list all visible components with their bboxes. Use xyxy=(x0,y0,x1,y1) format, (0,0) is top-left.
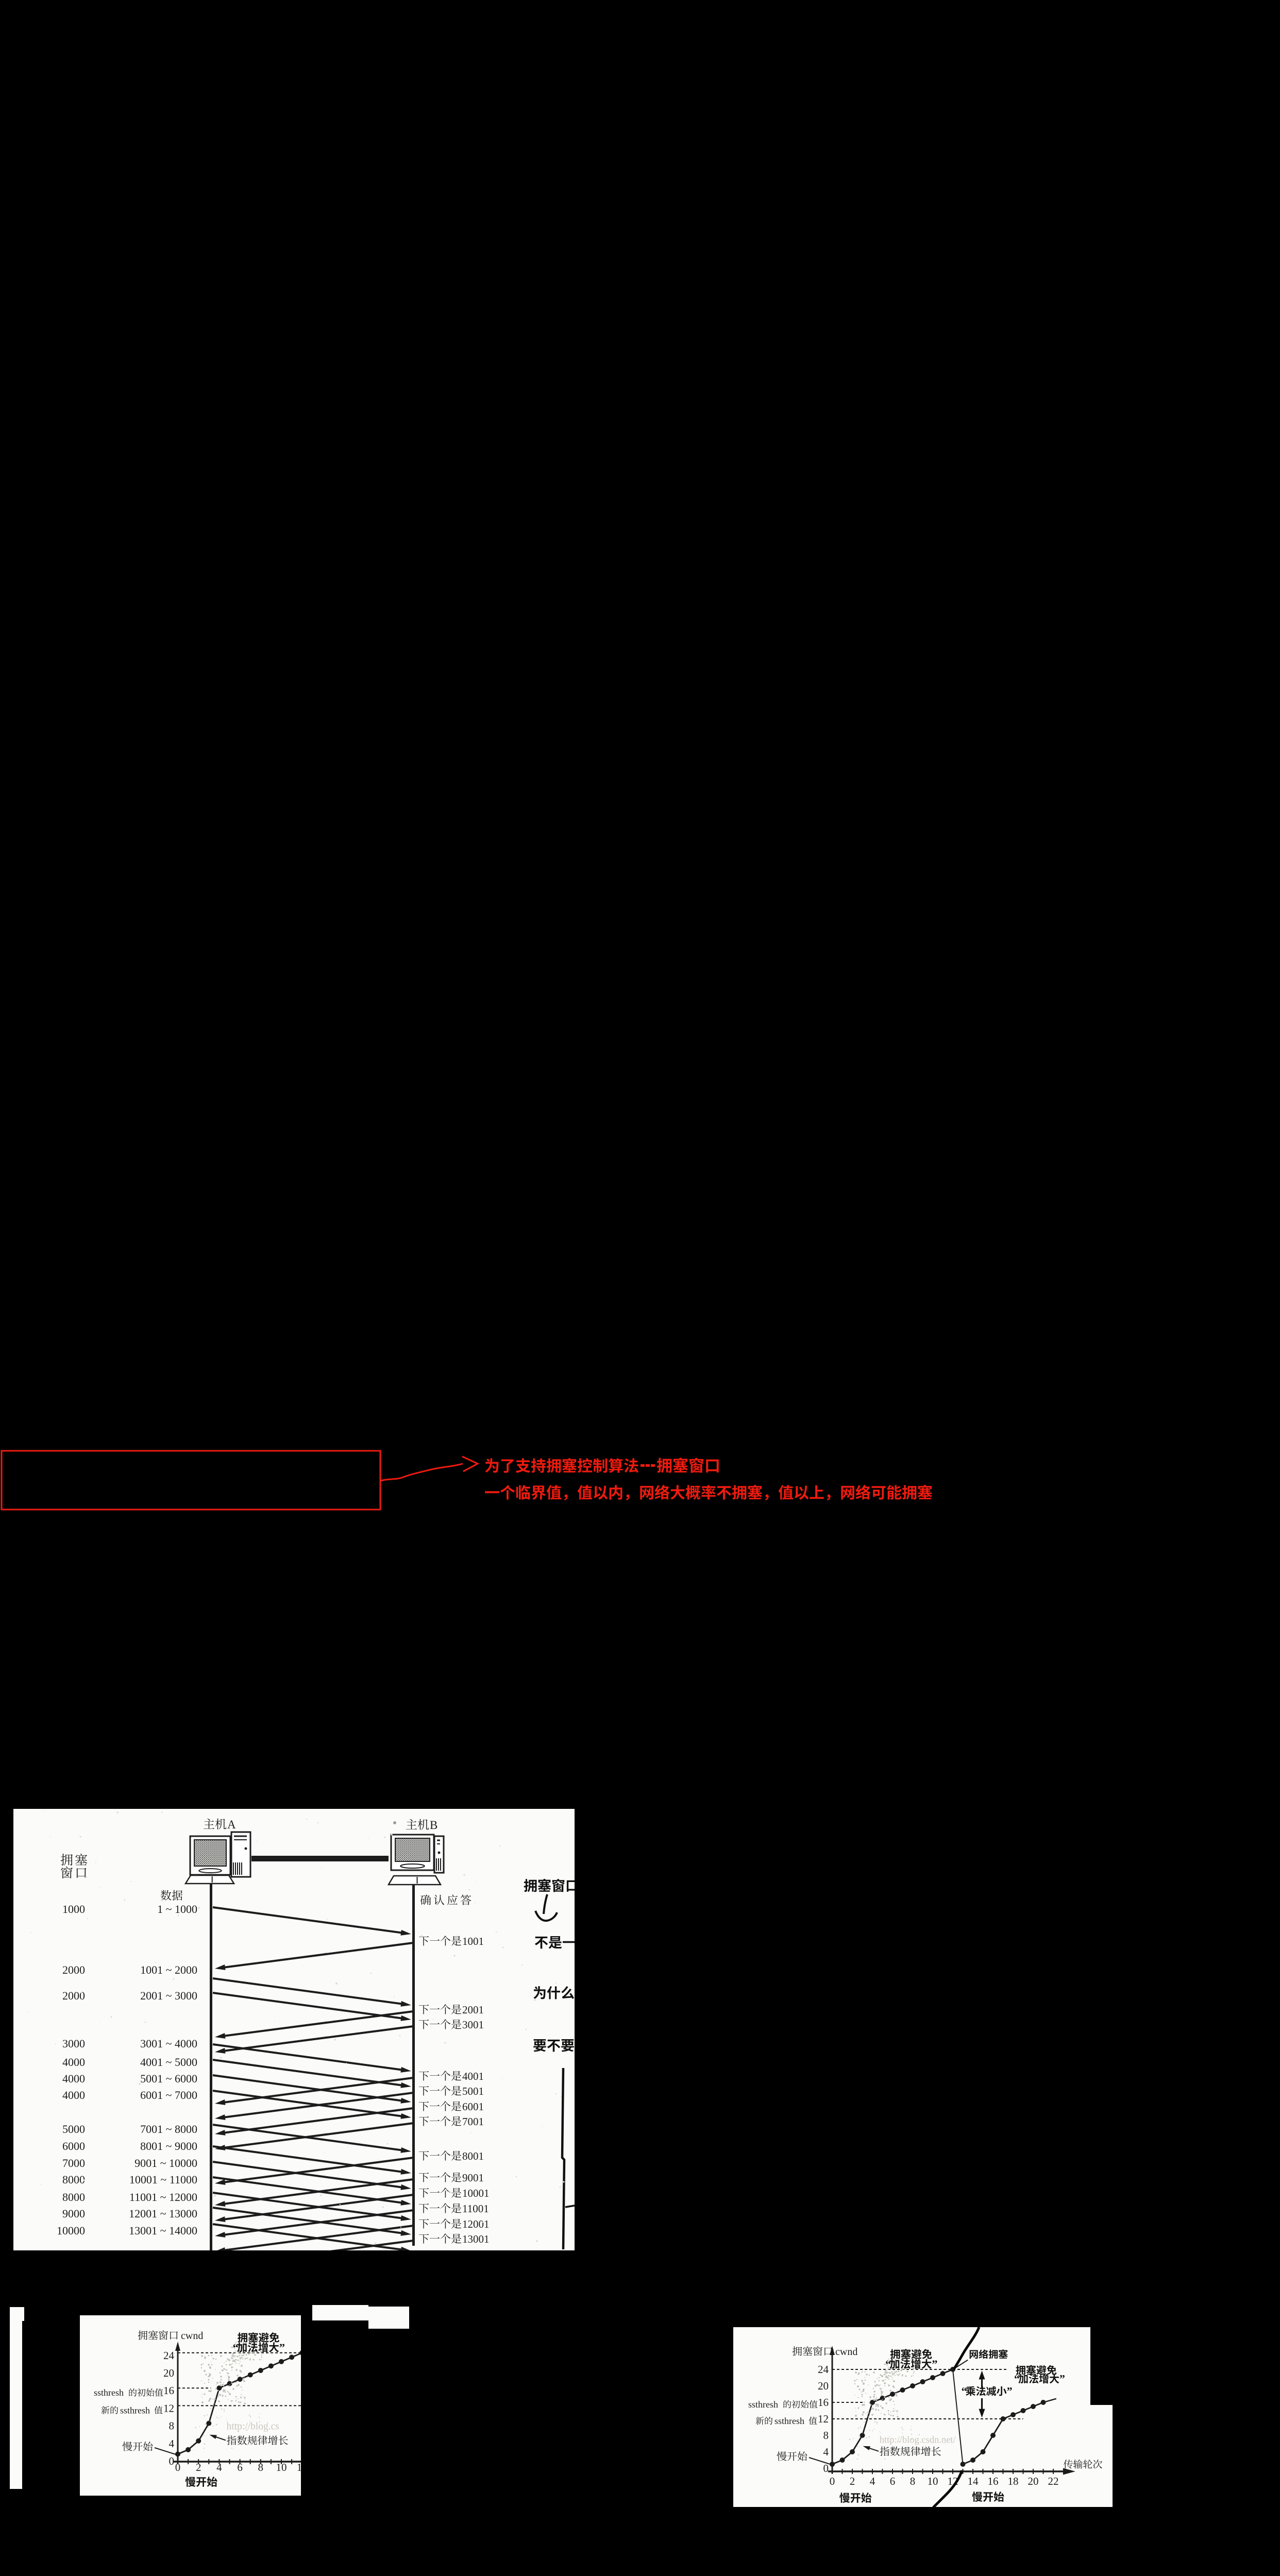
ack arrow xyxy=(221,2123,413,2148)
svg-text:7000: 7000 xyxy=(62,2157,85,2170)
slow start pointer xyxy=(777,2451,787,2461)
svg-text:4: 4 xyxy=(169,2437,175,2450)
svg-text:5001 ~ 6000: 5001 ~ 6000 xyxy=(140,2072,197,2085)
congestion avoidance 1 xyxy=(890,2349,900,2359)
data arrow xyxy=(213,2091,405,2116)
data arrow xyxy=(213,2044,405,2070)
label congestion window xyxy=(61,1854,73,1866)
svg-text:24: 24 xyxy=(818,2363,829,2376)
dash 24 xyxy=(832,2369,1008,2370)
svg-text:14: 14 xyxy=(968,2475,979,2487)
note vline xyxy=(562,2068,564,2249)
ack arrow xyxy=(221,2226,413,2251)
svg-text:2000: 2000 xyxy=(62,1963,85,1976)
svg-text:11001: 11001 xyxy=(462,2202,489,2215)
figure1 scan background xyxy=(13,1809,575,2250)
ack label 4001 xyxy=(419,2071,429,2081)
data arrow xyxy=(213,2125,405,2150)
host A xyxy=(204,1819,214,1829)
svg-text:8001: 8001 xyxy=(462,2150,484,2162)
svg-text:“: “ xyxy=(962,2385,967,2398)
curve1 xyxy=(178,2353,302,2454)
svg-text:3001 ~ 4000: 3001 ~ 4000 xyxy=(140,2037,197,2050)
ack label 12001 xyxy=(419,2219,429,2229)
svg-text:6001: 6001 xyxy=(462,2100,484,2113)
svg-text:8: 8 xyxy=(258,2461,264,2473)
svg-text:9001 ~ 10000: 9001 ~ 10000 xyxy=(134,2157,197,2170)
x axis xyxy=(828,2470,1068,2472)
svg-text:”: ” xyxy=(932,2358,937,2370)
data arrow xyxy=(213,2162,405,2188)
y axis xyxy=(177,2347,179,2464)
svg-text:4001: 4001 xyxy=(462,2070,484,2082)
svg-text:0: 0 xyxy=(175,2461,181,2473)
congestion avoidance 2 xyxy=(1016,2365,1025,2375)
dash 24 xyxy=(178,2352,302,2353)
ack arrow xyxy=(221,2011,413,2037)
data arrow xyxy=(213,2075,405,2101)
svg-text:3000: 3000 xyxy=(62,2037,85,2050)
svg-text:ssthresh: ssthresh xyxy=(748,2399,778,2410)
ack arrow xyxy=(221,2210,413,2235)
svg-text:10000: 10000 xyxy=(57,2224,85,2237)
svg-text:3001: 3001 xyxy=(462,2019,484,2031)
svg-text:20: 20 xyxy=(1028,2475,1039,2487)
scan blotch xyxy=(220,2381,222,2383)
note line3 xyxy=(533,1986,545,1999)
drop line xyxy=(953,2369,963,2464)
svg-text:11001 ~ 12000: 11001 ~ 12000 xyxy=(129,2191,197,2204)
red text line1 xyxy=(485,1459,498,1473)
svg-text:http://blog.csdn.net/: http://blog.csdn.net/ xyxy=(880,2435,956,2445)
data arrow xyxy=(213,2193,405,2218)
svg-text:B: B xyxy=(430,1819,437,1832)
label data xyxy=(161,1890,172,1901)
ack label 7001 xyxy=(419,2116,429,2126)
data arrow xyxy=(213,2208,405,2233)
svg-text:13001: 13001 xyxy=(462,2233,490,2245)
svg-text:7001 ~ 8000: 7001 ~ 8000 xyxy=(140,2123,197,2136)
svg-text:4: 4 xyxy=(823,2446,829,2458)
svg-text:ssthresh: ssthresh xyxy=(94,2387,124,2398)
svg-text:1 ~ 1000: 1 ~ 1000 xyxy=(157,1903,197,1916)
congestion avoidance 1 xyxy=(238,2332,247,2342)
chartL background xyxy=(80,2315,301,2496)
svg-text:“: “ xyxy=(885,2358,891,2370)
svg-text:4: 4 xyxy=(216,2461,222,2473)
ack label 10001 xyxy=(419,2188,429,2198)
ack label 9001 xyxy=(419,2173,429,2182)
chartR background xyxy=(733,2327,1113,2507)
svg-text:1000: 1000 xyxy=(62,1903,85,1916)
curve2 xyxy=(963,2402,1043,2464)
svg-text:8001 ~ 9000: 8001 ~ 9000 xyxy=(140,2140,197,2153)
dash 16 xyxy=(832,2402,864,2403)
y axis xyxy=(832,2351,833,2473)
svg-text:2001 ~ 3000: 2001 ~ 3000 xyxy=(140,1989,197,2002)
curve1 xyxy=(832,2369,953,2464)
data arrow xyxy=(213,2224,405,2250)
svg-text:18: 18 xyxy=(1008,2475,1019,2487)
svg-text:8000: 8000 xyxy=(62,2173,85,2186)
data arrow xyxy=(213,1993,405,2019)
svg-text:2: 2 xyxy=(196,2461,201,2473)
svg-text:”: ” xyxy=(279,2341,285,2354)
svg-text:10: 10 xyxy=(276,2461,287,2473)
svg-text:8: 8 xyxy=(823,2429,829,2442)
svg-text:12001: 12001 xyxy=(462,2218,490,2230)
ack label 8001 xyxy=(419,2151,429,2161)
svg-text:8000: 8000 xyxy=(62,2191,85,2204)
dash 16 xyxy=(178,2387,211,2388)
svg-text:12001 ~ 13000: 12001 ~ 13000 xyxy=(129,2207,197,2220)
svg-text:12: 12 xyxy=(163,2402,174,2414)
svg-text:”: ” xyxy=(1007,2385,1013,2398)
ack arrow xyxy=(221,2078,413,2103)
ack label 6001 xyxy=(419,2102,429,2111)
svg-text:16: 16 xyxy=(988,2475,999,2487)
svg-text:“: “ xyxy=(1014,2372,1020,2385)
slow start pointer xyxy=(123,2442,132,2451)
dash 12 xyxy=(178,2405,302,2406)
svg-text:10: 10 xyxy=(928,2475,938,2487)
red arrow xyxy=(381,1464,463,1481)
svg-text:9000: 9000 xyxy=(62,2207,85,2220)
bold slow start 1 xyxy=(185,2477,195,2487)
ack arrow xyxy=(221,2026,413,2052)
label ack xyxy=(420,1895,431,1905)
svg-text:2: 2 xyxy=(850,2475,855,2487)
svg-text:”: ” xyxy=(1059,2372,1065,2385)
ack arrow xyxy=(221,2093,413,2118)
svg-text:6: 6 xyxy=(237,2461,243,2473)
ack arrow xyxy=(221,1943,413,1968)
ack label 11001 xyxy=(419,2204,429,2213)
data arrow xyxy=(213,2177,405,2203)
bold slow start 2 xyxy=(972,2492,982,2502)
svg-text:4: 4 xyxy=(870,2475,875,2487)
svg-text:1001: 1001 xyxy=(462,1935,484,1947)
note line4 xyxy=(533,2039,546,2052)
network congestion xyxy=(970,2350,978,2359)
svg-text:22: 22 xyxy=(1048,2475,1059,2487)
svg-text:5001: 5001 xyxy=(462,2085,484,2097)
ack arrow xyxy=(221,2195,413,2220)
svg-text:1001 ~ 2000: 1001 ~ 2000 xyxy=(140,1963,197,1976)
ack label 2001 xyxy=(419,2005,429,2014)
host A computer xyxy=(190,1836,230,1875)
red box xyxy=(2,1451,380,1510)
scan noise xyxy=(195,1876,197,1877)
svg-text:10001: 10001 xyxy=(462,2187,490,2199)
data arrow xyxy=(213,2146,405,2172)
svg-text:0: 0 xyxy=(823,2462,829,2475)
exp growth xyxy=(227,2435,237,2445)
ack label 5001 xyxy=(419,2086,429,2096)
svg-text:10001 ~ 11000: 10001 ~ 11000 xyxy=(129,2173,197,2186)
svg-text:4000: 4000 xyxy=(62,2072,85,2085)
white strip top1 xyxy=(312,2305,410,2329)
timeline A xyxy=(210,1884,212,2250)
svg-text:4000: 4000 xyxy=(62,2056,85,2069)
data arrow xyxy=(213,2060,405,2086)
link line xyxy=(251,1856,389,1861)
note cwnd xyxy=(524,1879,537,1892)
svg-text:5000: 5000 xyxy=(62,2123,85,2136)
host B xyxy=(406,1819,417,1829)
svg-text:ssthresh: ssthresh xyxy=(120,2405,150,2415)
svg-text:0: 0 xyxy=(830,2475,835,2487)
bold slow start 1 xyxy=(839,2493,850,2503)
ack arrow xyxy=(221,2158,413,2183)
double arrow xyxy=(981,2376,983,2388)
ack label 13001 xyxy=(419,2234,429,2244)
svg-text:ssthresh: ssthresh xyxy=(774,2416,804,2426)
cwnd label xyxy=(138,2330,148,2340)
data arrow xyxy=(213,1978,405,2004)
svg-text:12: 12 xyxy=(818,2413,829,2425)
svg-text:20: 20 xyxy=(163,2367,174,2379)
svg-text:20: 20 xyxy=(818,2380,829,2392)
svg-text:4001 ~ 5000: 4001 ~ 5000 xyxy=(140,2056,197,2069)
svg-text:9001: 9001 xyxy=(462,2172,484,2184)
x axis xyxy=(174,2461,304,2463)
exp growth xyxy=(880,2447,889,2456)
red text line2 xyxy=(485,1491,499,1493)
svg-text:6000: 6000 xyxy=(62,2140,85,2153)
note line2 xyxy=(535,1937,548,1949)
svg-text:12: 12 xyxy=(297,2461,301,2473)
svg-text:cwnd: cwnd xyxy=(835,2346,857,2358)
svg-text:4000: 4000 xyxy=(62,2089,85,2102)
ack arrow xyxy=(221,2179,413,2205)
timeline B xyxy=(412,1885,415,2246)
ack arrow xyxy=(221,2108,413,2133)
host B computer xyxy=(391,1835,434,1870)
dash 12 xyxy=(832,2418,1023,2419)
svg-text:A: A xyxy=(227,1818,236,1831)
svg-text:16: 16 xyxy=(818,2396,829,2409)
svg-text:6001 ~ 7000: 6001 ~ 7000 xyxy=(140,2089,197,2102)
svg-text:16: 16 xyxy=(163,2384,174,2397)
svg-text:8: 8 xyxy=(910,2475,916,2487)
note arrow xyxy=(535,1894,557,1921)
svg-text:7001: 7001 xyxy=(462,2115,484,2128)
svg-text:“: “ xyxy=(233,2341,239,2354)
hand wavy line xyxy=(954,2327,979,2369)
transmission round xyxy=(1064,2460,1073,2469)
svg-text:6: 6 xyxy=(890,2475,896,2487)
ack arrow xyxy=(221,2241,413,2266)
svg-text:http://blog.cs: http://blog.cs xyxy=(227,2421,279,2432)
scan blotch xyxy=(873,2396,875,2398)
svg-text:8: 8 xyxy=(169,2420,175,2432)
svg-text:0: 0 xyxy=(169,2455,175,2467)
svg-text:cwnd: cwnd xyxy=(181,2330,203,2342)
svg-text:13001 ~ 14000: 13001 ~ 14000 xyxy=(129,2224,197,2237)
svg-text:2000: 2000 xyxy=(62,1989,85,2002)
new ssthresh xyxy=(756,2417,764,2425)
white strip left xyxy=(10,2307,24,2489)
svg-text:24: 24 xyxy=(163,2349,175,2362)
new ssthresh xyxy=(102,2406,110,2414)
ack label 1001 xyxy=(419,1936,429,1946)
svg-text:2001: 2001 xyxy=(462,2004,484,2016)
ack label 3001 xyxy=(419,2020,429,2029)
cwnd label xyxy=(793,2346,802,2355)
data arrow xyxy=(213,1907,405,1933)
